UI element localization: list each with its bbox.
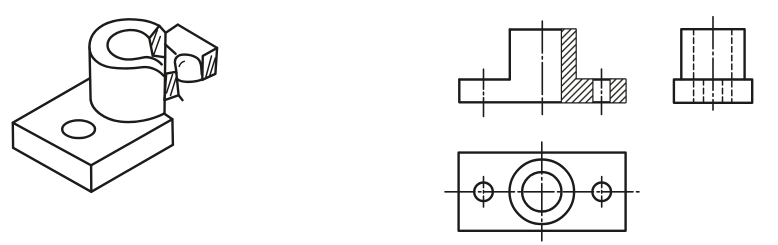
broken piece near top edge to notch — [165, 44, 176, 54]
base plate top face edge W-S — [13, 123, 91, 166]
hidden small hole right — [722, 80, 724, 103]
base plate vertical edge E — [171, 119, 174, 145]
plate rectangle — [459, 153, 626, 231]
section hatch right region — [611, 80, 626, 103]
base plate vertical edge S — [90, 165, 93, 192]
base hole ellipse on top face — [62, 120, 95, 138]
lower break face parallelogram — [164, 72, 178, 100]
lower break face hatch 2 — [171, 77, 177, 96]
hidden hole edge right — [731, 29, 733, 103]
broken piece apex edge to far corner — [178, 25, 217, 48]
left hole centerline — [483, 69, 485, 116]
right hole vertical centerline — [601, 177, 603, 207]
cylinder inner hole rim arc with floor tail — [108, 30, 162, 64]
main centerline — [541, 21, 543, 115]
piece bottom curve between notch and right face — [177, 79, 202, 82]
boss outer circle — [510, 160, 575, 225]
cut face hatch stroke 1 — [152, 30, 158, 46]
right break face hatch 1 — [206, 56, 212, 79]
broken piece apex edge to cylinder — [166, 25, 178, 33]
base top edge left part — [459, 78, 510, 80]
right break face of piece — [202, 48, 217, 80]
right hole left edge — [591, 80, 593, 103]
cut face bottom edge — [153, 56, 166, 58]
cylinder outer top rim arc with floor tail — [89, 19, 163, 75]
notch arch (half hole groove) — [175, 55, 202, 75]
section hatch L-region — [562, 30, 592, 103]
boss left edge — [509, 30, 511, 80]
right small hole — [592, 183, 611, 202]
base plate top face edge E toward N (short visible) — [164, 113, 173, 119]
hole inner circle — [522, 172, 561, 211]
base plate top face edge S-E — [91, 119, 172, 165]
right hole centerline — [601, 69, 603, 115]
cut face top radial edge — [149, 26, 159, 38]
boss right edge — [574, 30, 576, 80]
long vertical edge of broken piece / cut — [165, 33, 166, 114]
cylinder bottom arc on base top face — [91, 100, 165, 122]
base rectangle — [674, 80, 752, 103]
cut face right edge kink — [159, 26, 165, 33]
left small hole — [474, 183, 493, 202]
piece bottom back corner edge — [179, 95, 183, 100]
hole edge in section — [561, 30, 563, 103]
horizontal centerline — [445, 191, 642, 193]
base plate bottom edge W-S — [13, 148, 91, 192]
vertical centerline — [541, 142, 543, 241]
left hole vertical centerline — [483, 177, 485, 207]
base outline — [459, 80, 625, 103]
base plate vertical edge W — [12, 123, 15, 148]
hidden hole edge left — [693, 29, 695, 103]
cut face hatch stroke 2 — [154, 37, 160, 55]
boss top edge — [510, 28, 576, 30]
centerline — [712, 17, 714, 110]
far arch of groove (thin) — [179, 61, 184, 66]
cylinder left silhouette edge — [90, 47, 91, 100]
base plate top face edge W-N (up-right, ends behind cylinder) — [13, 78, 90, 123]
hidden small hole left — [703, 80, 705, 103]
lower break face hatch 1 — [167, 75, 173, 94]
cut face left edge — [149, 38, 152, 55]
right break face hatch 2 — [210, 58, 216, 77]
base plate bottom edge S-E — [91, 145, 173, 192]
right hole right edge — [610, 80, 612, 103]
cylinder rectangle — [681, 29, 744, 79]
